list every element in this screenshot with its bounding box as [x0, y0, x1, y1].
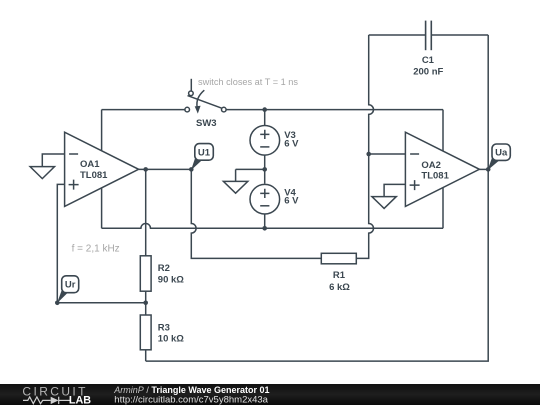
wire: U1 node down and across to R1 left lead (hop over negative rail) [191, 169, 321, 258]
wire: capacitor C1 top branch [369, 34, 489, 36]
wire: V3 top lead [264, 110, 266, 126]
ground at OA2 non-inverting input [372, 197, 396, 209]
op-amp OA1 power pin wire (V+ top, V- bottom) [101, 110, 103, 229]
resistor R2 [140, 256, 151, 291]
svg-text:90 kΩ: 90 kΩ [158, 275, 184, 286]
wire: OA2 non-inverting input to ground [384, 184, 405, 196]
svg-text:switch closes at T = 1 ns: switch closes at T = 1 ns [198, 77, 298, 87]
wire: V3 bottom lead to mid node [264, 155, 266, 169]
source V3 [250, 126, 280, 156]
resistor R3 [140, 315, 151, 350]
wire: mid ground branch from V3/V4 node [236, 169, 265, 181]
op-amp OA2 power pin wire (V+ top, V- bottom) [442, 110, 444, 229]
wire: C1 left vertical to OA2 inverting node (hop over positive rail) [369, 35, 374, 154]
svg-text:ArminP / Triangle Wave Generat: ArminP / Triangle Wave Generator 01 [113, 385, 269, 395]
switch SW3 arrowhead [195, 106, 201, 114]
junction dot V3/V4 mid node [262, 167, 267, 172]
footer bar [0, 384, 540, 405]
wire: C1 right vertical down to output node [487, 35, 489, 169]
wire: R3 bottom to bottom row [145, 350, 147, 361]
junction dot U1 node [189, 167, 194, 172]
wire: R2 bottom to R3 top [145, 291, 147, 315]
ground between V3 and V4 [223, 181, 247, 193]
op-amp OA1 [65, 132, 139, 206]
svg-text:http://circuitlab.com/c7v5y8hm: http://circuitlab.com/c7v5y8hm2x43a [114, 395, 268, 405]
resistor R1 [321, 253, 356, 263]
wire: Ur node row to R2/R3 node [57, 302, 145, 304]
wire: negative rail with hop over R2 branch [102, 224, 443, 229]
junction dot R2/R3/Ur node [143, 301, 148, 306]
switch SW3 [185, 79, 226, 114]
svg-text:6 V: 6 V [284, 138, 299, 149]
node flag U1 [191, 144, 213, 171]
svg-text:R2: R2 [158, 263, 170, 274]
switch SW3 right terminal [222, 107, 227, 112]
junction dot output node [486, 167, 491, 172]
junction dot V4 bottom on negative rail [262, 226, 267, 231]
switch SW3 blade [188, 96, 224, 109]
svg-text:R3: R3 [158, 323, 170, 334]
svg-text:TL081: TL081 [80, 170, 108, 181]
wire: positive rail right segment (switch to OA2 V+ pin) [226, 109, 443, 111]
switch SW3 actuator stub [190, 79, 192, 91]
wire: V4 bottom lead to negative rail [264, 214, 266, 228]
ground at OA1 inverting input [30, 167, 54, 179]
switch SW3 left terminal [185, 107, 190, 112]
footer logo diode mark [23, 397, 71, 404]
switch SW3 closing arrow curve [197, 90, 204, 107]
svg-text:LAB: LAB [69, 394, 91, 405]
wire: OA1 inverting input to ground [42, 154, 64, 167]
capacitor C1 plates [426, 21, 432, 51]
junction dot V3 top on positive rail [262, 107, 267, 112]
wire: R1 right lead up to OA2 inverting node (hop over negative rail) [356, 154, 373, 258]
svg-text:6 kΩ: 6 kΩ [329, 282, 350, 293]
junction dot Ur node [55, 301, 60, 306]
svg-text:SW3: SW3 [196, 118, 217, 129]
wire: V4 top lead [264, 169, 266, 183]
svg-text:U1: U1 [198, 147, 211, 158]
wire: OA2 inverting input [369, 153, 406, 155]
wire: OA2 output stub [479, 168, 488, 170]
node flag Ua [488, 144, 511, 170]
svg-text:f = 2,1 kHz: f = 2,1 kHz [72, 244, 120, 255]
svg-text:Ur: Ur [65, 280, 76, 291]
svg-text:OA2: OA2 [421, 160, 441, 171]
wire: Ur vertical up to OA1 non-inverting input [57, 184, 64, 302]
junction dot OA2 inverting node [366, 152, 371, 157]
svg-text:OA1: OA1 [80, 159, 100, 170]
wire: OA1 output to U1 node [139, 168, 192, 170]
svg-text:Ua: Ua [495, 148, 508, 159]
junction dot OA1 output node [143, 167, 148, 172]
svg-text:6 V: 6 V [284, 196, 299, 207]
svg-text:C1: C1 [422, 55, 435, 66]
svg-text:200 nF: 200 nF [413, 67, 443, 78]
svg-text:TL081: TL081 [421, 171, 449, 182]
node flag Ur [57, 276, 79, 303]
wire: positive rail left segment (OA1 V+ pin to switch) [102, 109, 186, 111]
svg-text:R1: R1 [333, 270, 346, 281]
switch SW3 blade end contact [189, 91, 194, 96]
source V4 [250, 184, 280, 214]
wire: OA1 output node down to R2 [145, 169, 147, 255]
svg-text:10 kΩ: 10 kΩ [158, 333, 184, 344]
wire: output node down right edge and bottom row to R3 [146, 169, 489, 361]
op-amp OA2 [405, 132, 479, 206]
